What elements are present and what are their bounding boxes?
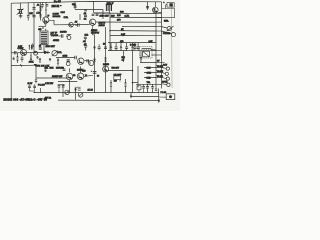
connector pin tick y83.7 <box>156 83 162 85</box>
wire vertical x138 <box>137 66 139 88</box>
resistor R16 x45.5 y67 <box>44 69 46 71</box>
screw terminal box <box>166 94 175 100</box>
capacitor C42 x156 bottom marks <box>155 89 157 90</box>
wire battery loop right <box>162 9 175 18</box>
wire y65.5 left agc <box>11 64 35 66</box>
junction dot y25 x76 <box>75 24 77 26</box>
resistor R21 x13.5 below <box>13 57 15 59</box>
wire y57.5 volume feed <box>56 56 75 58</box>
wire C14 lower lead <box>84 39 86 43</box>
capacitor C28 in block <box>33 86 36 87</box>
wire hook pin 3 <box>162 77 167 80</box>
connector bottom stub wire <box>158 89 160 101</box>
svg-text:2ND IF: 2ND IF <box>107 3 115 5</box>
border frame right (faint) <box>171 3 173 88</box>
svg-text:YEL: YEL <box>147 82 152 84</box>
svg-text:10KB: 10KB <box>63 56 69 58</box>
transistor Q1 converter circle <box>43 17 49 23</box>
variable capacitor C1 plates <box>19 10 21 13</box>
wire mark right of y62.6 <box>162 62 165 64</box>
wire bus y42.5 <box>108 42 156 44</box>
connector strip left rail <box>155 13 157 89</box>
transistor Q7 base bar <box>67 75 69 79</box>
output transformer T3 coil humps <box>142 48 151 49</box>
wire Q5 to connector <box>158 11 162 13</box>
svg-text:SW: SW <box>114 80 117 82</box>
battery B1 box <box>167 3 174 8</box>
wire vertical x47.5 below IF box <box>43 45 45 53</box>
hanging capacitor C36 x99 <box>98 47 101 48</box>
transistor Q8 emitter arrow <box>79 77 82 79</box>
wire junction drop x131 <box>130 93 132 97</box>
wire hook pin 1 <box>162 67 167 70</box>
wire Q1 collector <box>46 20 54 26</box>
wire vertical x147.5 top <box>147 2 149 10</box>
wire shielded pair upper <box>36 77 66 79</box>
jack J2 circle <box>171 33 175 37</box>
connector pin tick y55 <box>156 54 162 56</box>
wire y25 upper middle <box>54 24 90 26</box>
wire C18 lead down <box>85 47 87 50</box>
wire R14 leads <box>132 43 134 45</box>
earphone jack J1 circle <box>167 27 171 31</box>
wire to jack J1 <box>162 27 168 28</box>
capacitor C40 x22 below <box>21 58 24 59</box>
svg-text:MODE 666 -AT-45B2-C -457 65: MODE 666 -AT-45B2-C -457 65 <box>4 98 48 102</box>
svg-text:2SA101: 2SA101 <box>53 15 62 18</box>
transistor Q1 emitter arrow <box>44 21 47 23</box>
capacitor C17 x68 bottom with case <box>67 60 70 61</box>
hanging wire x138 <box>137 43 139 51</box>
pin circle speaker lead 2 <box>165 72 168 75</box>
thermistor TH1 mark <box>65 91 68 94</box>
wire vertical x28 <box>27 3 29 15</box>
svg-text:56: 56 <box>73 75 75 77</box>
svg-text:160: 160 <box>117 15 121 17</box>
connector pin tick y72.5 <box>156 72 162 74</box>
svg-text:4.7K 25V: 4.7K 25V <box>45 83 54 85</box>
capacitor C3 upper on x34 <box>32 8 35 10</box>
svg-text:2ND DET: 2ND DET <box>100 16 110 18</box>
wire lead y67.5 <box>144 67 156 69</box>
svg-text:B RED: B RED <box>130 45 137 47</box>
connector pin tick y35.6 <box>156 35 162 37</box>
pin circle speaker lead 4 <box>167 83 170 86</box>
resistor R17 x111 y82 <box>110 83 112 87</box>
coil L1 top marks <box>67 35 71 36</box>
wire hook pin 2 <box>162 73 166 74</box>
battery plus sign <box>163 1 165 3</box>
output transformer T3 dashed box <box>140 47 152 58</box>
connector pin tick y17.5 <box>156 17 162 19</box>
transistor Q2 base bar <box>90 20 92 24</box>
arrow blob near Q8 <box>84 74 87 77</box>
wire signal line y52.5 <box>11 51 50 53</box>
wire battery negative lead <box>166 5 168 9</box>
diode D1 triangle <box>44 51 47 54</box>
coil circle below C17 <box>66 62 70 66</box>
border frame left <box>10 3 12 99</box>
capacitor C39 below Q2 <box>91 30 94 32</box>
capacitor C19 series on y57.5 <box>75 56 77 59</box>
connector stub arrow blob <box>158 100 160 103</box>
hanging capacitor C37 x134.8 <box>133 47 136 48</box>
resistor R19 x75.5 y88 <box>74 88 76 90</box>
hanging resistor R14 x132.5 <box>131 46 133 50</box>
wire vertical x94.5 middle <box>94 35 96 93</box>
wire T3 top lead <box>151 49 156 51</box>
wire bus y31 <box>110 30 156 32</box>
svg-text:B+ 9V: B+ 9V <box>54 0 61 3</box>
wire vertical x40.5 bottom <box>40 88 42 93</box>
svg-text:455KC: 455KC <box>53 40 60 42</box>
svg-text:4.7: 4.7 <box>122 59 126 61</box>
svg-text:IF: IF <box>48 15 51 17</box>
capacitor C8 x85 y14 <box>84 15 87 16</box>
junction dot x60.5 y5.5 <box>60 5 62 7</box>
transistor Q10 circle x91 <box>89 60 94 65</box>
transistor Q4 base bar <box>21 51 23 55</box>
svg-text:VOL: VOL <box>58 52 63 54</box>
svg-text:2.7K: 2.7K <box>125 16 130 18</box>
hanging capacitor C22 x116 <box>115 47 118 48</box>
coil circle x35.5 on line <box>34 51 38 55</box>
wire y12.7 second det <box>94 12 110 14</box>
capacitor C6 at x44-48 y21 <box>45 22 46 25</box>
capacitor C27 in block <box>28 86 31 87</box>
wire R15 leads <box>140 51 142 63</box>
volume pot VR1 arrow <box>52 50 58 56</box>
svg-text:.05: .05 <box>75 22 79 24</box>
svg-text:ON-OFF: ON-OFF <box>114 74 122 76</box>
svg-text:OSC: OSC <box>61 12 66 14</box>
capacitor C41 x143.5 bottom <box>142 87 145 88</box>
capacitor C20 x89.8 on y60.5 <box>87 59 88 62</box>
svg-text:100K: 100K <box>29 62 34 64</box>
capacitor C25 x64 y68 <box>63 69 66 70</box>
junction dot x35 y52.5 <box>34 52 36 54</box>
capacitor C10 below det line <box>96 14 99 15</box>
wire bus y62.5 <box>140 62 156 64</box>
transistor Q7 driver circle <box>66 73 73 80</box>
wire ground bus y92.5 <box>34 92 159 94</box>
wire block lead down <box>30 89 35 92</box>
transistor Q7 emitter arrow <box>68 77 71 79</box>
resistor R8 x58 bottom <box>57 59 59 63</box>
transistor Q4 emitter arrow <box>22 53 25 55</box>
wire lead y83.5 <box>136 83 156 85</box>
svg-text:560 25V: 560 25V <box>112 68 120 70</box>
wire bus y50.5 <box>108 50 156 52</box>
svg-text:OUTPUT: OUTPUT <box>91 33 100 35</box>
IF transformer T1 box <box>40 31 48 45</box>
connector pin tick y31 <box>156 30 162 32</box>
wire vertical x47.5 upper <box>45 2 47 17</box>
connector pin tick y13.6 <box>156 13 162 15</box>
svg-text:1K: 1K <box>84 19 87 21</box>
hanging wire x126.5 <box>126 43 128 51</box>
connector pin tick y67.6 <box>156 67 162 69</box>
wire T2 bottom lead <box>108 11 110 13</box>
thermistor TH1 circle bottom <box>65 90 69 94</box>
electrolytic cap C26 on x94.5 <box>93 72 97 74</box>
resistor R6 x40 bottom <box>39 58 41 62</box>
junction dot x110 y31 <box>109 30 111 32</box>
wire bus y26.5 <box>122 25 156 27</box>
capacitor C43 x42.5 top <box>41 5 44 6</box>
wire stub x80 <box>79 14 81 20</box>
wire switch feed y70.5 <box>108 70 133 72</box>
wire bus y35.5 <box>110 34 156 36</box>
svg-text:3.5V: 3.5V <box>163 65 168 67</box>
transformer T2 windings top middle <box>106 5 113 11</box>
IF transformer T1 windings <box>41 33 47 43</box>
svg-text:PC-100: PC-100 <box>38 85 46 87</box>
capacitor C11 x147.5 <box>146 6 149 7</box>
resistor R18 x125.5 y82 <box>124 83 126 87</box>
capacitor C21 x105.5 y45 <box>104 47 107 48</box>
transistor Q2 detector circle <box>89 19 95 25</box>
wire R12 leads <box>110 43 112 51</box>
svg-text:TRANS: TRANS <box>51 34 59 37</box>
wire bus y17.5 <box>110 16 162 18</box>
capacitor C33 x147.5 y86 <box>146 87 149 88</box>
ground symbol G1 <box>19 16 23 18</box>
wire bus y13.5 <box>94 12 156 15</box>
small coil L1 circle <box>67 36 71 40</box>
capacitor C14 mid <box>84 37 87 38</box>
capacitor C38 x32.5 hanging <box>31 45 34 46</box>
wire vertical x34 <box>33 3 35 23</box>
junction dot x47.5 y10 <box>45 9 46 10</box>
wire vertical x105.5 <box>105 27 107 93</box>
battery B1 dark cell <box>169 3 172 6</box>
connector pin tick y77.5 <box>156 77 162 79</box>
capacitor C35 x36 below agc line <box>35 80 37 81</box>
agc wire tick mark x21 <box>20 64 21 66</box>
svg-text:8.2K: 8.2K <box>121 34 126 36</box>
wire x132.5 to x138 link <box>133 82 139 84</box>
resistor R3 ticks <box>29 46 33 48</box>
border frame top <box>11 1 161 3</box>
svg-text:BLK: BLK <box>147 68 151 70</box>
resistor R9 x94.5 y44 <box>93 46 95 48</box>
svg-text:2X 25: 2X 25 <box>88 90 94 92</box>
resistor R4 x17.5 below <box>16 57 18 61</box>
transistor Q6 audio circle <box>78 58 84 64</box>
transistor Q8 driver2 circle <box>77 73 84 80</box>
wire C13 left lead <box>59 35 62 37</box>
svg-text:33: 33 <box>97 75 99 77</box>
hanging resistor R13 x121 <box>120 46 122 48</box>
wire vertical x132.5 <box>132 51 134 93</box>
svg-text:AUDIO: AUDIO <box>99 24 106 27</box>
resistor R1 on x40.5 upper <box>39 7 42 11</box>
capacitor C31 x79 y88 <box>78 89 81 90</box>
wire to jack J2 <box>162 31 172 34</box>
capacitor C30 x63 bottom <box>62 86 65 87</box>
wire vertical x20 <box>19 3 21 9</box>
transistor Q3 marks <box>70 24 73 27</box>
wire C33 leads <box>147 84 149 92</box>
transistor Q6 base bar <box>78 59 80 63</box>
wire R4 lead <box>17 53 19 63</box>
transistor Q4 first audio circle <box>21 50 27 56</box>
capacitor C13 horizontal lead <box>61 34 63 38</box>
transistor Q5 base bar <box>153 8 155 11</box>
svg-text:.02: .02 <box>83 13 87 15</box>
svg-text:270: 270 <box>117 20 121 22</box>
variable capacitor C1 top plate <box>17 9 23 11</box>
bottom left capacitor block box <box>30 84 35 89</box>
thermistor TH2 mark <box>79 93 82 96</box>
svg-text:COIL: COIL <box>64 17 70 19</box>
caption baseline <box>58 99 158 101</box>
diode D1 bar <box>47 51 49 54</box>
capacitor C2 on x28 <box>27 16 30 17</box>
wire shielded pair lower <box>58 81 77 83</box>
resistor R3 above line x29-32 <box>29 45 31 50</box>
resistor R15 x141 y56 <box>140 56 142 60</box>
svg-text:1N34 DET: 1N34 DET <box>46 46 56 48</box>
wire vertical x75 top <box>74 2 76 10</box>
svg-text:10K: 10K <box>29 13 33 15</box>
wire hook pin 4 <box>162 83 167 86</box>
wire R8 leads <box>57 58 59 66</box>
capacitor C18 x85.5 y45 <box>84 46 87 47</box>
transistor Q5 output right top circle <box>153 7 159 13</box>
wire vertical x93.5 top <box>93 2 95 13</box>
cap C26 plus mark <box>91 70 93 72</box>
svg-text:.01: .01 <box>83 41 87 43</box>
transistor Q2 emitter arrow <box>91 23 94 25</box>
wire vertical x110 <box>109 14 111 51</box>
wire C1 to ground <box>20 13 22 16</box>
wire vertical x69.5 <box>69 80 71 93</box>
transistor Q1 internal bar <box>43 18 45 22</box>
svg-text:100MF 10V: 100MF 10V <box>52 76 63 78</box>
wire vertical x34 lower <box>33 23 35 53</box>
transistor Q9 base bar <box>103 67 105 70</box>
resistor R2 on x40.5 lower <box>39 15 42 17</box>
resistor R10 x94.5 y58 <box>93 58 95 62</box>
switch SW1 box <box>114 76 121 80</box>
wire x36 vertical agc drop <box>35 65 37 78</box>
transistor Q6 emitter arrow <box>79 62 82 64</box>
junction dot x123 y35.5 <box>122 35 124 37</box>
resistor R5 x31 below <box>30 56 32 60</box>
capacitor C44 x47 top <box>46 5 49 6</box>
wire lead y72.5 <box>144 71 156 73</box>
hanging wire x116 <box>115 43 117 51</box>
wire vertical x75.5 bottom <box>75 88 77 100</box>
capacitor C29 x59 bottom <box>58 86 61 87</box>
variable capacitor C1 bottom plate <box>18 12 23 14</box>
svg-text:SPKR: SPKR <box>162 82 168 84</box>
capacitor C16 x40 mid <box>39 48 42 49</box>
wire y60.5 driver in <box>85 60 90 62</box>
junction dot x132.5 y82.5 <box>132 82 134 84</box>
svg-text:EAR.: EAR. <box>164 19 169 22</box>
wire Q5 top lead <box>154 2 156 7</box>
connector pin tick y50.7 <box>156 50 162 52</box>
svg-text:.01: .01 <box>37 4 41 6</box>
connector pin tick y22.1 <box>156 21 162 23</box>
svg-text:4.7K: 4.7K <box>36 12 41 14</box>
pin circle speaker lead 3 <box>166 77 169 80</box>
volume pot VR1 circle <box>52 51 57 56</box>
capacitor C15 series on signal line <box>14 51 16 54</box>
wire vertical x103 <box>102 9 104 19</box>
output transformer T3 core box <box>143 51 150 57</box>
svg-text:2SB56: 2SB56 <box>103 64 110 66</box>
agc arrow blob x35 <box>34 64 37 67</box>
wire Q8 to cap <box>84 75 93 76</box>
junction dot x132.5 y70.5 <box>132 70 134 72</box>
hanging capacitor C24 x138 <box>137 47 140 48</box>
wire R5 lead <box>30 53 32 62</box>
pin circle speaker lead 1 <box>166 67 169 70</box>
connector pin tick y62.6 <box>156 62 162 64</box>
transistor Q9 emitter arrow <box>104 70 107 72</box>
wire vertical x63 bottom <box>62 85 64 98</box>
wire bar over C29 C30 <box>58 83 65 85</box>
svg-text:2SA 52: 2SA 52 <box>52 5 60 8</box>
capacitor C4 lower on x34 <box>32 15 35 16</box>
capacitor C7 pair top x75 <box>74 6 77 7</box>
capacitor C34 x152.5 y86 <box>151 87 154 88</box>
transistor Q8 base bar <box>78 74 80 78</box>
plus mark above T1 <box>42 27 44 29</box>
wire lead y77.5 <box>144 76 156 78</box>
transistor Q9 output circle <box>103 66 109 72</box>
resistor R11 x105.5 y58 <box>104 58 106 62</box>
svg-text:1C2: 1C2 <box>85 35 90 37</box>
svg-text:RED: RED <box>147 78 152 80</box>
connector pin tick y26.5 <box>156 26 162 28</box>
hanging resistor R12 x111 <box>110 46 112 50</box>
svg-text:10 6V: 10 6V <box>28 83 33 85</box>
svg-text:2SA53: 2SA53 <box>60 31 67 34</box>
capacitor C32 x139 y88 box style <box>137 86 141 90</box>
wire vertical x40.5 <box>40 3 42 21</box>
resistor R7 x50 bottom <box>49 58 51 60</box>
resistor R20 x37.5 below <box>36 56 38 58</box>
transistor Q5 emitter blob <box>154 11 157 13</box>
svg-text:10%: 10% <box>50 67 54 69</box>
capacitor C12 on y25 wire <box>78 23 80 26</box>
wire bus y96.5 <box>131 96 159 98</box>
junction dot x67 y36 <box>66 36 67 37</box>
transistor TH2 circle bottom e3 <box>78 93 83 98</box>
svg-text:56B: 56B <box>82 71 86 73</box>
hanging wire x121 <box>120 43 122 51</box>
wire Q7 collector lead down <box>69 68 71 72</box>
wire C34 leads <box>152 84 154 92</box>
wire transformer secondary y55 <box>152 54 157 56</box>
wire C2 lower lead <box>27 17 29 21</box>
wire bus y22 <box>96 21 156 23</box>
junction arrow blob x131 <box>130 96 132 99</box>
screw terminal inner circle <box>169 95 172 98</box>
wire to screw terminal <box>159 96 166 98</box>
capacitor C9 below det line <box>92 14 95 15</box>
output transformer T3 core marks <box>143 51 150 57</box>
svg-text:10: 10 <box>39 45 41 47</box>
wire vertical x123.5 <box>123 51 125 62</box>
svg-text:GRN: GRN <box>147 73 152 75</box>
wire R17 leads <box>110 80 112 93</box>
